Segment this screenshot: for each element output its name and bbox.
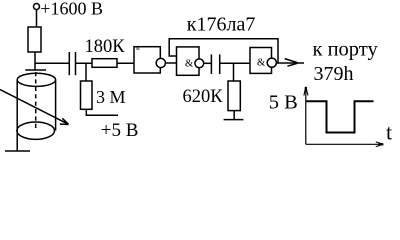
wire — [36, 10, 38, 28]
tube BD1 cylinder — [17, 72, 56, 139]
axis X — [306, 143, 382, 145]
svg-text:&: & — [136, 47, 140, 52]
wire — [220, 62, 250, 64]
waveform diagram — [304, 87, 383, 147]
gate U1.3 output circle — [267, 58, 276, 67]
ground — [224, 119, 244, 121]
capacitor C2 — [211, 54, 219, 74]
resistor R4 620K — [228, 81, 240, 111]
radiation arrow — [0, 90, 69, 125]
wire node B down — [85, 63, 87, 81]
resistor R3 180K — [92, 59, 117, 68]
svg-text:379h: 379h — [314, 63, 354, 85]
wire — [204, 62, 212, 64]
axis X arrowhead — [376, 142, 384, 147]
svg-text:5 В: 5 В — [269, 92, 298, 114]
wire — [117, 62, 134, 64]
node A — [25, 69, 46, 71]
svg-text:&: & — [185, 59, 193, 70]
svg-text:+5 В: +5 В — [101, 120, 139, 141]
wire node C down — [233, 63, 235, 81]
resistor R2 3M — [81, 81, 93, 109]
wire feedback left — [169, 39, 278, 64]
capacitor C1 — [69, 52, 75, 75]
gate U1.2 output circle — [195, 59, 204, 68]
wire — [34, 52, 36, 70]
axis Y arrowhead — [304, 87, 308, 96]
gate U1.2 — [177, 47, 200, 75]
resistor R1 — [28, 27, 41, 52]
ground — [5, 131, 30, 152]
arrow to port — [285, 59, 298, 67]
axis Y — [305, 87, 307, 144]
svg-text:к порту: к порту — [313, 39, 379, 61]
svg-text:к176ла7: к176ла7 — [187, 13, 256, 35]
svg-text:+1600 В: +1600 В — [40, 0, 103, 19]
wire — [35, 62, 69, 64]
wire output — [276, 62, 304, 64]
waveform trace — [306, 101, 374, 132]
svg-text:180К: 180К — [85, 37, 126, 57]
svg-text:3 М: 3 М — [96, 87, 126, 107]
wire — [233, 111, 235, 120]
gate U1.1 output circle — [156, 58, 165, 67]
wire — [165, 62, 176, 64]
svg-text:t: t — [386, 119, 392, 144]
wire — [86, 109, 118, 115]
terminal +1600V — [34, 4, 40, 10]
gate U1.1 — [134, 47, 160, 73]
svg-text:&: & — [257, 58, 265, 69]
gate U1.3 — [250, 48, 272, 74]
svg-text:620К: 620К — [183, 87, 224, 107]
wire — [76, 62, 93, 64]
